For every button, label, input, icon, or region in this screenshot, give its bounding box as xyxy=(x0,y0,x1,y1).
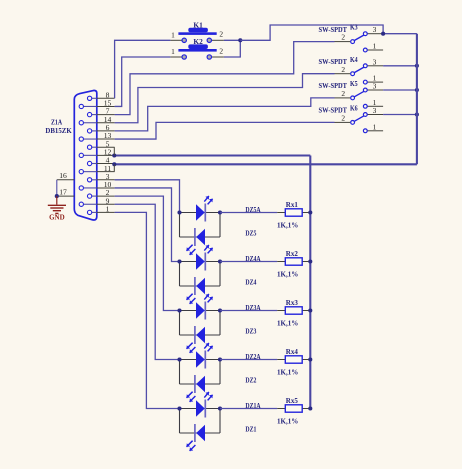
wire K4 pin3 to bus xyxy=(383,65,417,67)
svg-text:1: 1 xyxy=(373,122,377,131)
svg-text:3: 3 xyxy=(373,57,377,66)
wire Z1A pin3 to LED pair 5 xyxy=(115,180,180,213)
label K2 xyxy=(193,38,203,46)
svg-text:SW-SPDT: SW-SPDT xyxy=(319,26,348,34)
wire Z1A pin1 to LED pair 1 xyxy=(115,212,180,408)
svg-text:K1: K1 xyxy=(193,21,203,29)
svg-text:2: 2 xyxy=(341,89,345,98)
pin 2 of Z1A xyxy=(87,188,114,198)
label DZ1A xyxy=(245,402,260,410)
wire LED pair DZ1 loop xyxy=(180,409,221,434)
junction Rx2 bus xyxy=(308,259,312,263)
resistor Rx3 xyxy=(277,307,310,314)
pin 14 of Z1A xyxy=(79,115,114,125)
svg-text:K3: K3 xyxy=(350,24,358,32)
svg-text:DB15ZK: DB15ZK xyxy=(45,127,72,135)
wire DZ2 to Rx4 xyxy=(220,359,277,361)
wire DZ3 to Rx3 xyxy=(220,310,277,312)
pin 7 of Z1A xyxy=(87,107,114,117)
wire Z1A pin14 to K4 pin2 xyxy=(115,74,335,123)
bus resistors xyxy=(309,156,311,409)
svg-text:Rx5: Rx5 xyxy=(286,397,299,405)
resistor Rx5 xyxy=(277,405,310,412)
pin 8 of Z1A xyxy=(87,90,114,100)
junction LED DZ5 right node xyxy=(218,210,222,214)
label DZ5A xyxy=(245,206,260,214)
svg-text:K5: K5 xyxy=(350,80,358,88)
LED DZ1 xyxy=(187,424,206,451)
pin 9 of Z1A xyxy=(79,196,114,206)
LED DZ2A xyxy=(196,343,213,369)
label Rx2 xyxy=(286,250,299,258)
switch K6 SW-SPDT xyxy=(335,106,384,133)
svg-text:SW-SPDT: SW-SPDT xyxy=(319,82,348,90)
label Rx5 xyxy=(286,397,299,405)
LED DZ4A xyxy=(196,245,213,271)
junction Rx4 bus xyxy=(308,357,312,361)
switch K3 SW-SPDT xyxy=(335,25,384,52)
resistor Rx1 xyxy=(277,209,310,216)
LED DZ5A xyxy=(196,196,213,222)
wire DZ4 to Rx2 xyxy=(220,261,277,263)
switch K5 SW-SPDT xyxy=(335,82,384,109)
bus switch outputs xyxy=(416,34,418,165)
svg-text:Rx4: Rx4 xyxy=(286,348,299,356)
junction LED DZ2 right node xyxy=(218,357,222,361)
svg-text:1: 1 xyxy=(171,47,175,56)
pin 1 of Z1A xyxy=(87,205,114,215)
junction LED DZ4 left node xyxy=(177,259,181,263)
junction Rx3 bus xyxy=(308,308,312,312)
pin 12 of Z1A xyxy=(79,147,114,157)
wire K2 pin1 to Z1A pin15 xyxy=(115,57,171,106)
wire LED pair DZ3 loop xyxy=(180,311,221,336)
junction LED DZ5 left node xyxy=(177,210,181,214)
pin 3 of Z1A xyxy=(87,172,114,182)
wire LED pair DZ5 loop xyxy=(180,213,221,238)
wire bus to Z1A pins4,11 xyxy=(115,163,417,165)
svg-text:DZ5: DZ5 xyxy=(245,230,256,238)
wire K6 pin3 to bus xyxy=(383,114,417,116)
label Z1A xyxy=(51,119,62,127)
junction LED DZ4 right node xyxy=(218,259,222,263)
label DZ1 xyxy=(245,426,256,434)
wire Z1A pin2 to LED pair 3 xyxy=(115,196,180,310)
wire Z1A pin13 to K6 pin2 xyxy=(115,122,335,139)
svg-text:1K,1%: 1K,1% xyxy=(277,368,298,376)
label K1 xyxy=(193,21,203,29)
label DZ4A xyxy=(245,255,260,263)
svg-text:K4: K4 xyxy=(350,56,358,64)
label DZ4 xyxy=(245,279,256,287)
junction K3 pin3 xyxy=(381,32,385,36)
svg-text:Rx1: Rx1 xyxy=(286,201,299,209)
svg-text:1K,1%: 1K,1% xyxy=(277,270,298,278)
pin 16 of Z1A xyxy=(57,171,75,180)
label 1K,1% of Rx3 xyxy=(277,319,298,327)
label 1K,1% of Rx2 xyxy=(277,270,298,278)
switch K4 SW-SPDT xyxy=(335,57,384,84)
svg-text:3: 3 xyxy=(373,106,377,115)
pushbutton K1 xyxy=(170,28,224,43)
svg-text:Z1A: Z1A xyxy=(51,119,62,127)
wire LED pair DZ4 loop xyxy=(180,262,221,287)
svg-text:1: 1 xyxy=(106,205,110,214)
wire Z1A pin6 to K5 pin2 xyxy=(115,98,335,131)
junction K1/K2 outputs xyxy=(238,38,242,42)
connector Z1A DB15ZK body xyxy=(74,90,97,220)
ground GND xyxy=(48,196,66,222)
LED DZ3 xyxy=(187,326,206,353)
junction LED DZ1 right node xyxy=(218,406,222,410)
label DZ3 xyxy=(245,328,256,336)
label SW-SPDT K6 xyxy=(319,105,359,115)
wire DZ1 to Rx5 xyxy=(220,408,277,410)
wire K1/K2 junction to K3 pin3 xyxy=(240,25,383,40)
pin 10 of Z1A xyxy=(79,180,114,190)
junction Z1A pin12 xyxy=(112,153,116,157)
svg-text:2: 2 xyxy=(219,30,223,39)
svg-text:3: 3 xyxy=(373,25,377,34)
junction Rx1 bus xyxy=(308,210,312,214)
wire pin16 to pin17 xyxy=(56,180,58,196)
resistor Rx4 xyxy=(277,356,310,363)
wire K1 pin1 to Z1A pin8 xyxy=(115,40,171,98)
label SW-SPDT K3 xyxy=(319,24,359,34)
junction K6 pin3 bus xyxy=(415,112,419,116)
label Rx1 xyxy=(286,201,299,209)
svg-text:Rx3: Rx3 xyxy=(286,299,299,307)
wire K3 pin3 to bus xyxy=(383,33,417,35)
pin 15 of Z1A xyxy=(79,99,114,109)
wire Z1A pin10 to LED pair 4 xyxy=(115,188,180,262)
pin 5 of Z1A xyxy=(87,139,114,149)
svg-text:1K,1%: 1K,1% xyxy=(277,221,298,229)
label DZ2A xyxy=(245,353,260,361)
label DB15ZK xyxy=(45,127,72,135)
svg-text:2: 2 xyxy=(341,114,345,123)
svg-text:DZ1: DZ1 xyxy=(245,426,256,434)
junction pin17/GND xyxy=(55,194,59,198)
junction LED DZ1 left node xyxy=(177,406,181,410)
pin 6 of Z1A xyxy=(87,123,114,133)
label SW-SPDT K5 xyxy=(319,80,359,90)
label 1K,1% of Rx4 xyxy=(277,368,298,376)
svg-text:1K,1%: 1K,1% xyxy=(277,417,298,425)
wire DZ5 to Rx1 xyxy=(220,212,277,214)
svg-text:Rx2: Rx2 xyxy=(286,250,299,258)
pin 11 of Z1A xyxy=(79,164,114,174)
junction LED DZ3 right node xyxy=(218,308,222,312)
svg-text:SW-SPDT: SW-SPDT xyxy=(319,107,348,115)
svg-text:K2: K2 xyxy=(193,38,203,46)
svg-text:DZ3: DZ3 xyxy=(245,328,256,336)
svg-text:1: 1 xyxy=(171,30,175,39)
svg-text:1: 1 xyxy=(373,42,377,51)
junction K5 pin3 bus xyxy=(415,88,419,92)
junction LED DZ3 left node xyxy=(177,308,181,312)
svg-text:SW-SPDT: SW-SPDT xyxy=(319,58,348,66)
label Rx4 xyxy=(286,348,299,356)
LED DZ3A xyxy=(196,294,213,320)
svg-text:1K,1%: 1K,1% xyxy=(277,319,298,327)
svg-text:2: 2 xyxy=(341,33,345,42)
LED DZ4 xyxy=(187,277,206,304)
wire K5 pin3 to bus xyxy=(383,89,417,91)
svg-text:2: 2 xyxy=(341,65,345,74)
label SW-SPDT K4 xyxy=(319,56,359,66)
pin 17 of Z1A xyxy=(57,188,75,197)
wire pin5 to pin12 jumper xyxy=(113,147,115,155)
LED DZ2 xyxy=(187,375,206,402)
junction Z1A pin4 xyxy=(112,162,116,166)
junction Rx5 bus xyxy=(308,406,312,410)
pushbutton K2 xyxy=(170,44,224,59)
wire LED pair DZ2 loop xyxy=(180,360,221,385)
svg-text:GND: GND xyxy=(49,214,65,222)
label 1K,1% of Rx5 xyxy=(277,417,298,425)
pin 4 of Z1A xyxy=(87,156,114,166)
svg-text:DZ4: DZ4 xyxy=(245,279,256,287)
svg-text:3: 3 xyxy=(373,82,377,91)
wire pin4 to pin11 jumper xyxy=(113,164,115,171)
svg-text:17: 17 xyxy=(59,188,67,197)
junction K4 pin3 bus xyxy=(415,64,419,68)
label 1K,1% of Rx1 xyxy=(277,221,298,229)
LED DZ5 xyxy=(187,228,206,255)
junction LED DZ2 left node xyxy=(177,357,181,361)
label DZ2 xyxy=(245,377,256,385)
label DZ3A xyxy=(245,304,260,312)
wire Z1A pin7 to K3 pin2 xyxy=(115,42,335,115)
svg-text:K6: K6 xyxy=(350,105,358,113)
LED DZ1A xyxy=(196,392,213,418)
label Rx3 xyxy=(286,299,299,307)
wire K2 pin2 to junction xyxy=(224,40,240,57)
svg-text:DZ2: DZ2 xyxy=(245,377,256,385)
wire Z1A pin9 to LED pair 2 xyxy=(115,204,180,359)
wire K1 pin2 to junction xyxy=(224,39,240,41)
svg-text:2: 2 xyxy=(219,46,223,55)
resistor Rx2 xyxy=(277,258,310,265)
svg-text:16: 16 xyxy=(59,171,67,180)
pin 13 of Z1A xyxy=(79,131,114,141)
label DZ5 xyxy=(245,230,256,238)
wire Z1A pins5,12 to resistor bus xyxy=(115,154,311,156)
